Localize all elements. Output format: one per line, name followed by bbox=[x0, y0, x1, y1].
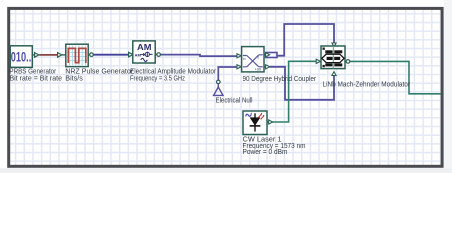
CW Laser 1 bbox=[243, 111, 273, 135]
svg-text:0: 0 bbox=[257, 56, 259, 60]
90 Degree Hybrid Coupler bbox=[237, 47, 270, 72]
label 90 Degree Hybrid Coupler bbox=[243, 76, 317, 83]
wire W6 coupler output 2 to MZM bottom port bbox=[270, 67, 334, 100]
svg-text:Electrical Amplitude Modulator: Electrical Amplitude Modulator bbox=[130, 68, 217, 75]
svg-text:PRBS Generator: PRBS Generator bbox=[10, 68, 57, 75]
svg-text:Bit rate = Bit rate: Bit rate = Bit rate bbox=[10, 76, 63, 83]
label PRBS Generator bbox=[10, 68, 63, 82]
label NRZ Pulse Generator bbox=[65, 68, 133, 82]
Electrical Amplitude Modulator U1 bbox=[129, 41, 161, 63]
wire W1 PRBS to NRZ bbox=[39, 54, 58, 56]
svg-text:NRZ Pulse Generator: NRZ Pulse Generator bbox=[65, 68, 133, 75]
svg-text:AM: AM bbox=[137, 42, 152, 52]
wire W2 NRZ to AM bbox=[93, 54, 129, 56]
label CW Laser 1 bbox=[243, 136, 306, 156]
svg-text:Frequency = 3.5 GHz: Frequency = 3.5 GHz bbox=[130, 76, 185, 83]
label LiNb Mach-Zehnder Modulator bbox=[323, 82, 411, 89]
svg-text:Bits/s: Bits/s bbox=[65, 76, 83, 83]
wire W7 CW laser to MZM input bbox=[272, 61, 316, 122]
svg-text:010..: 010.. bbox=[11, 50, 32, 65]
NRZ Pulse Generator bbox=[58, 44, 94, 66]
PRBS Generator bbox=[10, 46, 39, 68]
LiNb Mach-Zehnder Modulator bbox=[316, 43, 350, 76]
label Electrical Amplitude Modulator bbox=[130, 68, 217, 82]
svg-text:Electrical Null: Electrical Null bbox=[216, 98, 253, 105]
label Electrical Null bbox=[216, 98, 253, 105]
svg-text:LiNb Mach-Zehnder Modulator: LiNb Mach-Zehnder Modulator bbox=[323, 82, 411, 89]
wire W8 MZM output to edge bbox=[349, 61, 441, 93]
wire W3 AM to coupler input 1 bbox=[161, 55, 238, 57]
svg-text:90 Degree Hybrid Coupler: 90 Degree Hybrid Coupler bbox=[243, 76, 317, 83]
svg-text:+90: +90 bbox=[255, 67, 263, 72]
Electrical Null bbox=[214, 80, 223, 95]
wire W4 Electrical Null to coupler input 2 bbox=[218, 67, 237, 80]
svg-text:in: in bbox=[243, 57, 246, 61]
svg-text:Power = 0 dBm: Power = 0 dBm bbox=[243, 149, 288, 156]
wire W5 coupler output 1 loop bbox=[266, 24, 334, 58]
